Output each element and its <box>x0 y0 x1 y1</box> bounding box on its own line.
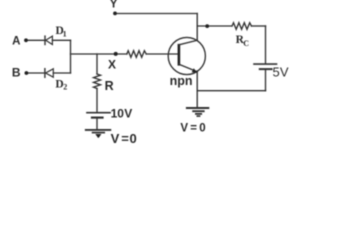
svg-text:V: V <box>111 131 120 146</box>
svg-text:5: 5 <box>273 64 280 79</box>
svg-text:1: 1 <box>63 30 67 39</box>
svg-text:2: 2 <box>63 83 67 92</box>
svg-text:npn: npn <box>170 74 193 88</box>
svg-text:0: 0 <box>199 123 205 135</box>
svg-text:B: B <box>12 66 21 80</box>
svg-text:V: V <box>124 107 132 121</box>
svg-text:=: = <box>190 123 197 135</box>
svg-text:10: 10 <box>111 107 125 121</box>
svg-text:C: C <box>243 39 249 48</box>
svg-text:V: V <box>180 123 188 135</box>
svg-text:V: V <box>280 64 289 79</box>
svg-text:R: R <box>105 79 114 93</box>
svg-text:X: X <box>108 57 116 71</box>
svg-text:0: 0 <box>130 131 137 146</box>
svg-text:=: = <box>121 131 129 146</box>
svg-text:Y: Y <box>110 0 118 11</box>
svg-text:A: A <box>12 35 20 47</box>
